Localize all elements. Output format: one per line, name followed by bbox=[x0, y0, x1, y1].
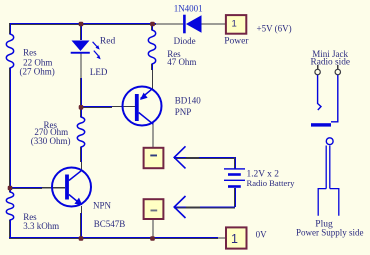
svg-text:PNP: PNP bbox=[175, 107, 192, 117]
svg-text:(330 Ohm): (330 Ohm) bbox=[31, 136, 71, 146]
svg-text:+5V (6V): +5V (6V) bbox=[257, 23, 292, 33]
svg-text:Radio Battery: Radio Battery bbox=[247, 178, 296, 188]
svg-text:Res: Res bbox=[23, 48, 37, 58]
svg-text:(27 Ohm): (27 Ohm) bbox=[20, 66, 55, 76]
svg-text:47 Ohm: 47 Ohm bbox=[167, 57, 196, 67]
svg-text:1N4001: 1N4001 bbox=[174, 3, 203, 13]
svg-text:Red: Red bbox=[100, 37, 116, 47]
svg-text:Diode: Diode bbox=[174, 36, 196, 46]
svg-text:Radio side: Radio side bbox=[311, 58, 351, 68]
svg-text:0V: 0V bbox=[256, 229, 268, 239]
svg-text:Power Supply side: Power Supply side bbox=[296, 228, 364, 238]
svg-text:Power: Power bbox=[224, 36, 249, 46]
svg-text:BD140: BD140 bbox=[175, 96, 202, 106]
svg-text:LED: LED bbox=[90, 67, 108, 77]
svg-text:3.3 kOhm: 3.3 kOhm bbox=[23, 221, 59, 231]
svg-text:NPN: NPN bbox=[93, 201, 112, 211]
svg-text:1: 1 bbox=[231, 232, 238, 246]
svg-text:1: 1 bbox=[232, 19, 237, 30]
svg-text:BC547B: BC547B bbox=[94, 219, 126, 229]
